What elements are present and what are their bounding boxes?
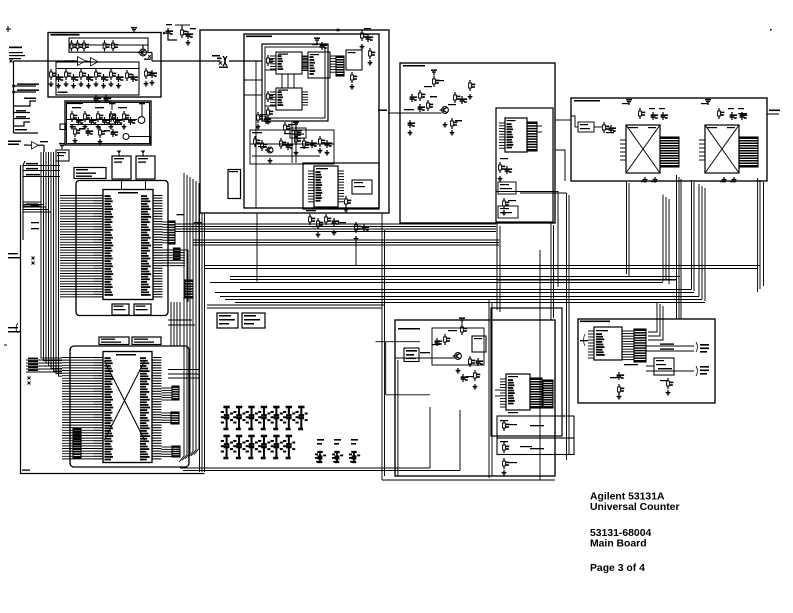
svg-text:Main Board: Main Board — [590, 539, 647, 550]
svg-text:Page 3 of 4: Page 3 of 4 — [590, 563, 645, 574]
svg-text:Universal Counter: Universal Counter — [590, 502, 680, 513]
svg-text:53131-68004: 53131-68004 — [590, 528, 651, 539]
svg-text:Agilent 53131A: Agilent 53131A — [590, 491, 665, 502]
